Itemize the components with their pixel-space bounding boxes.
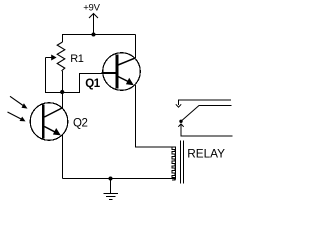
wire wiper left rail <box>46 58 63 93</box>
relay core bars <box>181 141 184 184</box>
contact pivot dot <box>179 120 182 123</box>
relay contact common arm <box>181 106 232 122</box>
relay coil right edge <box>175 147 177 180</box>
wire R1 top lead <box>62 35 64 43</box>
node dot +9V on rail <box>92 33 96 37</box>
wire Q1 emitter down <box>136 85 176 147</box>
wire bottom rail <box>63 178 176 180</box>
wire Q2 emitter down <box>62 135 64 179</box>
wire top rail <box>62 34 136 36</box>
relay coil L1 <box>172 147 176 180</box>
node junction dot R1 bottom <box>60 90 64 94</box>
wire +9V stub <box>93 14 95 35</box>
transistor Q2 (photo) <box>30 103 68 141</box>
relay contact bottom (NO) <box>178 124 232 136</box>
svg-text:+9V: +9V <box>83 2 100 13</box>
svg-text:Q1: Q1 <box>85 78 100 90</box>
relay coil bottom hook <box>172 178 175 179</box>
wire R1 bottom lead <box>62 71 64 93</box>
ground stub <box>110 179 112 194</box>
wire Q1 collector <box>135 35 137 59</box>
transistor Q1 <box>102 53 141 91</box>
R1 wiper arrow <box>46 55 57 61</box>
svg-text:R1: R1 <box>70 53 83 65</box>
light arrow 1 <box>10 96 28 108</box>
resistor R1 zigzag <box>57 42 65 71</box>
ground <box>104 194 119 200</box>
+9V arrow head <box>89 14 98 19</box>
wire Q2 collector <box>62 93 64 109</box>
light arrow 2 <box>8 112 26 121</box>
svg-text:RELAY: RELAY <box>187 146 225 160</box>
svg-text:Q2: Q2 <box>73 117 87 129</box>
node ground junction dot <box>109 177 113 181</box>
wire junction to Q1 base riser <box>63 74 104 93</box>
relay contact top (NC) <box>176 100 231 107</box>
